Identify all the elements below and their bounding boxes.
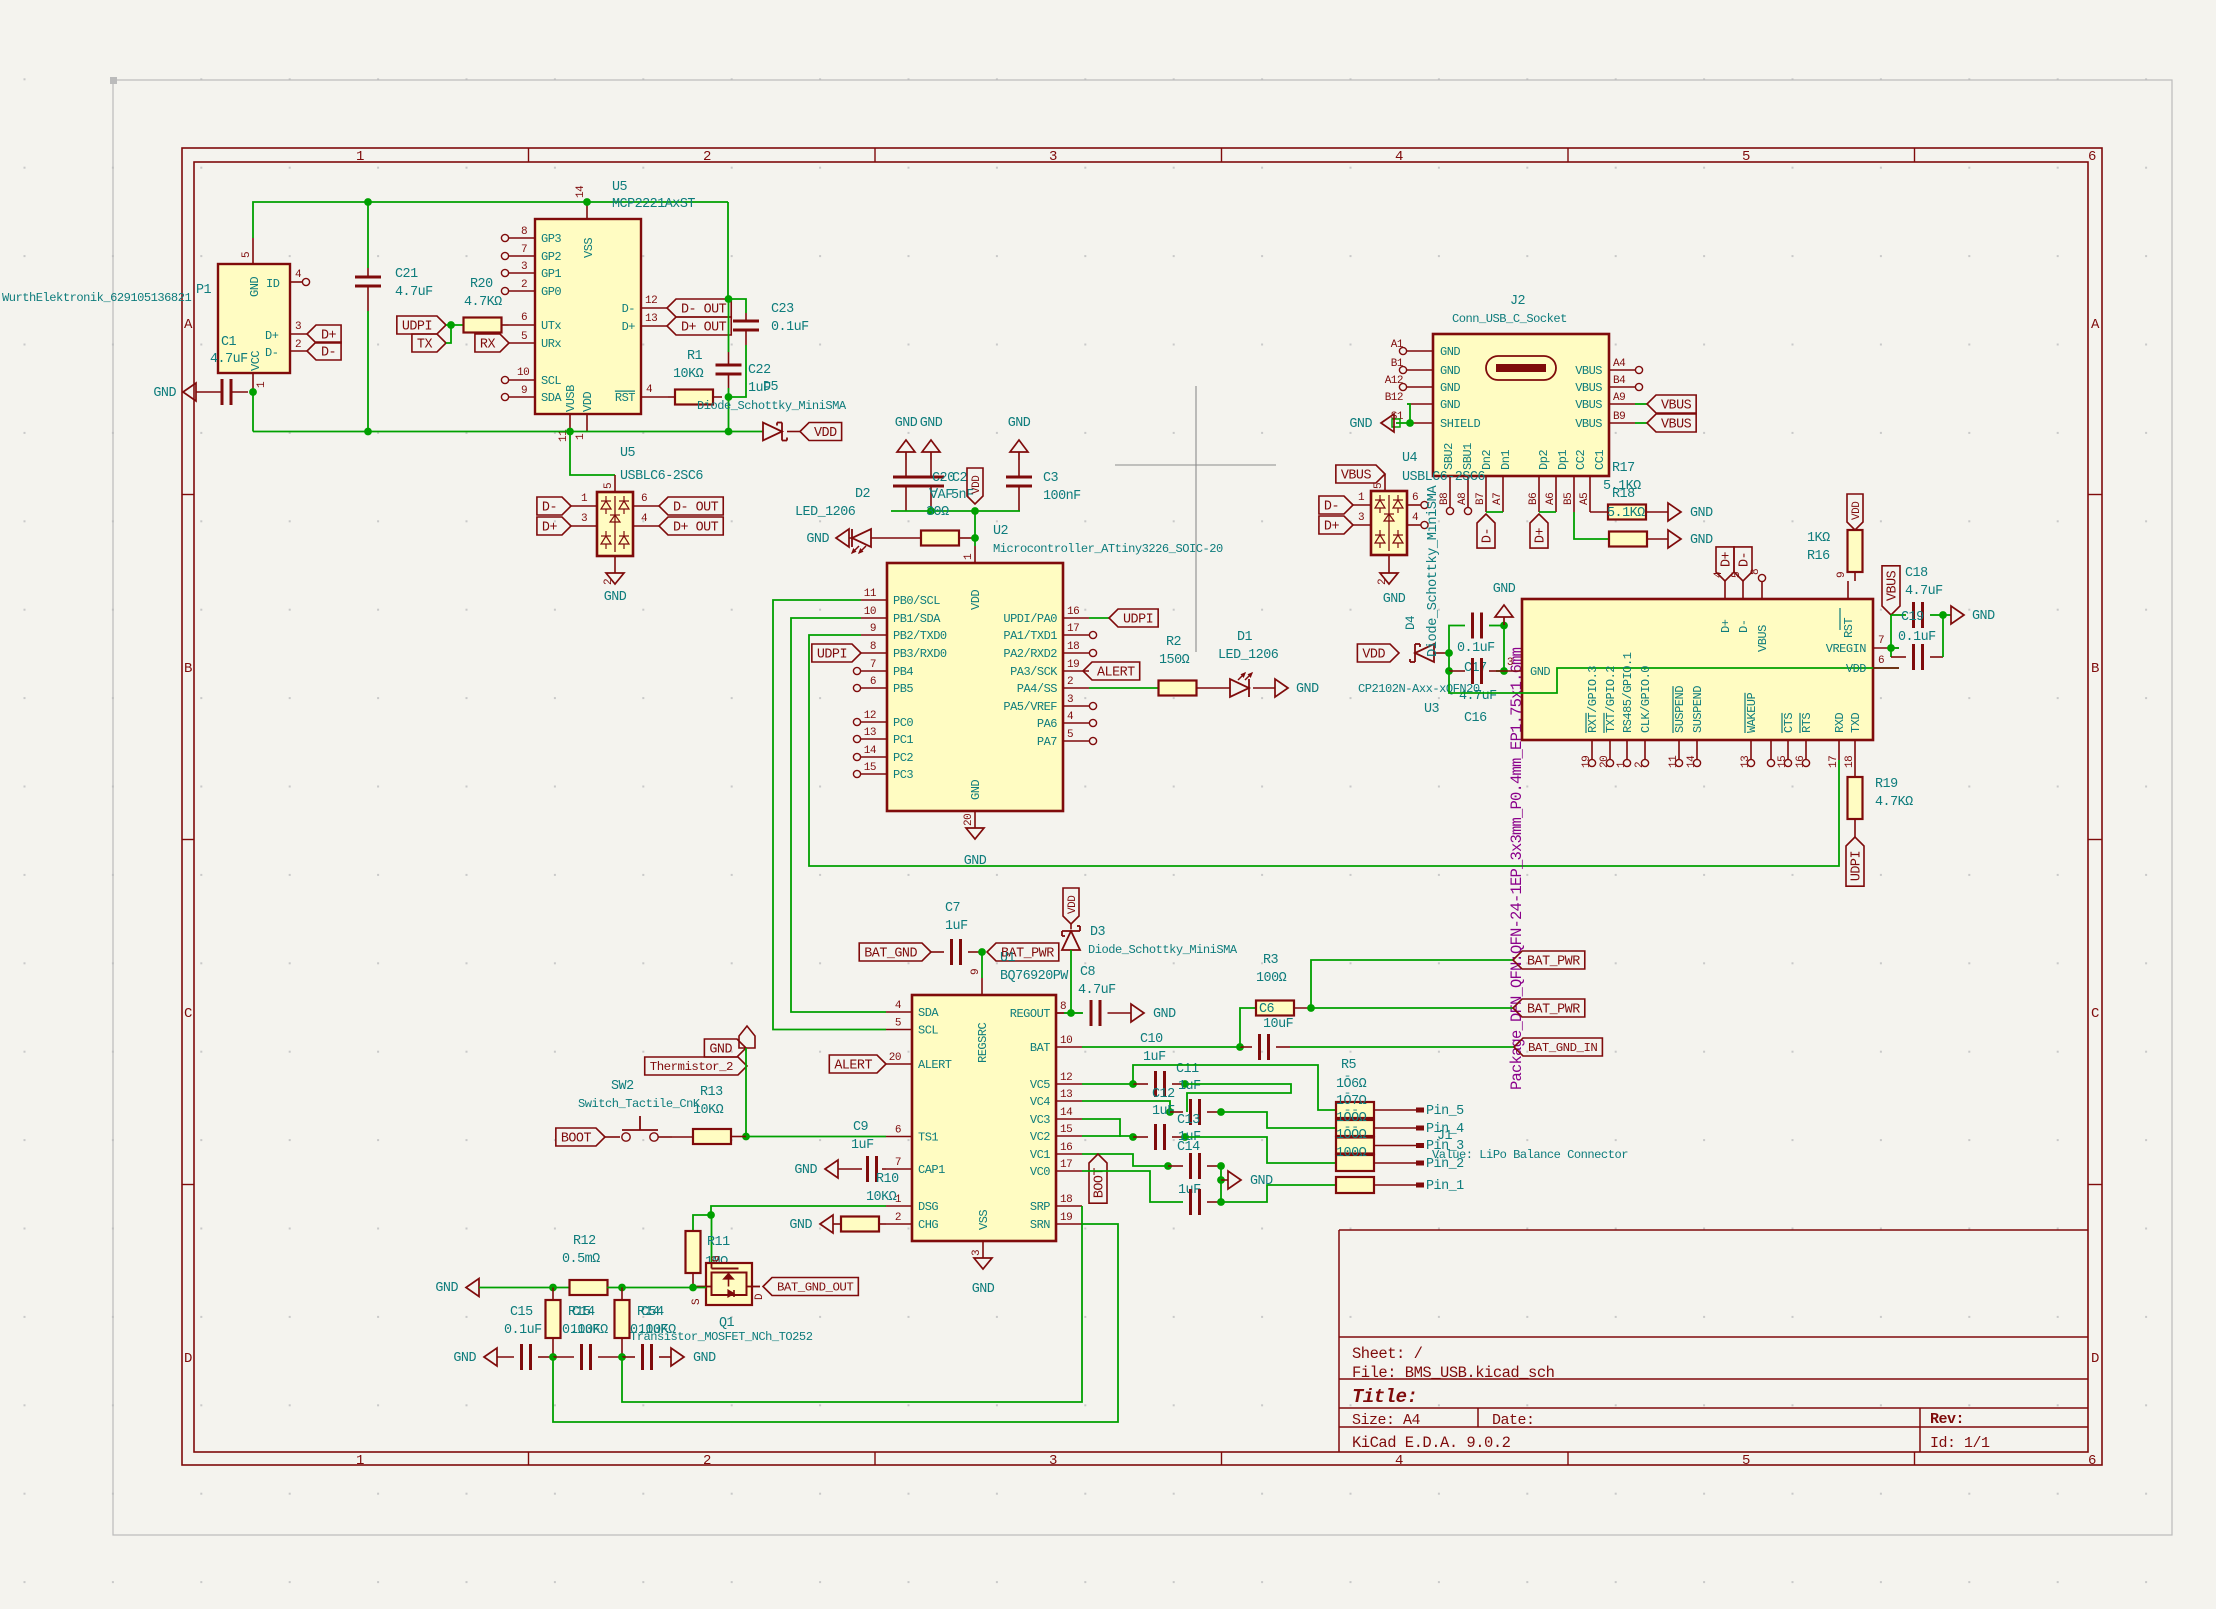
global label D+ at U4 — [1319, 516, 1353, 535]
svg-text:1: 1 — [356, 1453, 364, 1469]
svg-text:6: 6 — [2088, 1453, 2096, 1469]
diode D5 Schottky — [763, 423, 800, 441]
value 30ohm overlap — [926, 505, 949, 520]
svg-text:CC2: CC2 — [1574, 450, 1588, 470]
junction R12 right — [618, 1284, 626, 1292]
U3 right pins VREGIN VDD — [1826, 635, 1899, 676]
global label ALERT at U1 — [829, 1055, 886, 1074]
svg-text:PA5/VREF: PA5/VREF — [1003, 700, 1057, 714]
svg-text:VBUS: VBUS — [1575, 364, 1602, 378]
J2 right pins VBUS — [1575, 358, 1642, 431]
svg-text:10: 10 — [1060, 1035, 1072, 1047]
U4 pin 5 — [1373, 474, 1385, 491]
C23 labels — [771, 302, 809, 335]
USBLC6 pin 1 — [571, 493, 597, 506]
capacitor C21 — [355, 202, 381, 432]
svg-text:5: 5 — [1373, 483, 1385, 489]
junction C21 top — [364, 198, 372, 206]
svg-text:1uF: 1uF — [1152, 1104, 1175, 1119]
junction rail at U5 VUSB — [566, 428, 574, 436]
svg-text:3: 3 — [1067, 694, 1073, 706]
svg-text:4: 4 — [646, 384, 653, 396]
svg-text:C16: C16 — [1464, 711, 1487, 726]
junction VDD U2 — [927, 507, 979, 515]
svg-text:DSG: DSG — [918, 1200, 938, 1214]
U5 pin 13 D+ — [622, 313, 667, 334]
svg-text:D5: D5 — [763, 380, 779, 395]
svg-text:PB1/SDA: PB1/SDA — [893, 612, 941, 626]
svg-text:GND: GND — [435, 1281, 458, 1296]
svg-text:PB4: PB4 — [893, 665, 913, 679]
capacitor C8 — [1071, 1000, 1131, 1026]
svg-text:A8: A8 — [1457, 493, 1469, 505]
capacitor C18 — [1891, 602, 1943, 628]
global label VBUS A9 — [1647, 395, 1696, 414]
svg-text:D-: D- — [321, 346, 336, 361]
C8 labels — [1078, 965, 1116, 998]
global label D+ vertical — [1530, 514, 1549, 548]
svg-text:PA1/TXD1: PA1/TXD1 — [1003, 629, 1057, 643]
svg-text:GND: GND — [1440, 398, 1460, 412]
USBLC6 pin 3 — [571, 513, 597, 526]
svg-text:13: 13 — [1740, 756, 1752, 768]
junction C16 right GND pin — [1500, 626, 1508, 675]
svg-text:GP2: GP2 — [541, 250, 561, 264]
capacitor right row — [622, 1344, 671, 1370]
svg-text:VUSB: VUSB — [564, 385, 578, 412]
svg-text:B12: B12 — [1385, 392, 1403, 404]
svg-text:D+: D+ — [1324, 520, 1340, 535]
global label D- above U3 — [1734, 547, 1753, 581]
wire VC4 — [1082, 1101, 1174, 1116]
svg-text:CAP1: CAP1 — [918, 1163, 945, 1177]
svg-text:1uF: 1uF — [1178, 1079, 1201, 1094]
U1 left pins — [886, 1000, 952, 1232]
ground flag at J2 shield — [1349, 414, 1407, 432]
C13 labels — [1177, 1113, 1201, 1145]
capacitor C22 — [716, 299, 742, 397]
svg-text:3: 3 — [1507, 657, 1513, 669]
svg-text:D-: D- — [622, 302, 635, 316]
svg-text:PA7: PA7 — [1037, 735, 1057, 749]
svg-text:GP0: GP0 — [541, 285, 561, 299]
power flag GND C2 — [922, 440, 940, 460]
svg-text:GND: GND — [153, 386, 176, 401]
svg-text:A5: A5 — [1579, 493, 1591, 505]
svg-text:D+: D+ — [265, 329, 279, 343]
junction D2 resistor to VDD stub — [971, 534, 979, 542]
U2 pin 1 VDD — [963, 546, 983, 610]
svg-text:6: 6 — [1878, 655, 1884, 667]
svg-text:D- OUT: D- OUT — [681, 303, 727, 318]
svg-text:UDPI: UDPI — [817, 648, 847, 663]
svg-text:18: 18 — [1067, 641, 1079, 653]
svg-text:1: 1 — [575, 433, 587, 440]
svg-text:RST: RST — [1842, 618, 1856, 638]
svg-text:8: 8 — [870, 641, 876, 653]
svg-text:2: 2 — [1067, 676, 1073, 688]
svg-text:VC0: VC0 — [1030, 1165, 1050, 1179]
svg-text:SDA: SDA — [541, 391, 562, 405]
U1 right pins — [1010, 1001, 1082, 1232]
svg-text:5: 5 — [521, 331, 527, 343]
svg-text:B1: B1 — [1391, 358, 1404, 370]
svg-text:GND: GND — [1440, 345, 1460, 359]
P1 pin 3 D+ — [290, 321, 307, 334]
frame row letters — [184, 317, 2100, 1367]
D4 labels — [1404, 485, 1441, 657]
R11 labels — [705, 1235, 730, 1270]
svg-text:GND: GND — [895, 416, 918, 431]
svg-text:C1: C1 — [221, 335, 237, 350]
wire GND pin3 across to VDD pin6 — [1449, 668, 1899, 693]
U5 pin 10 SCL — [501, 367, 561, 388]
global label D- at USBLC6 — [537, 497, 571, 516]
svg-text:Size: A4: Size: A4 — [1352, 1412, 1421, 1429]
title block — [1339, 1230, 2088, 1452]
capacitor C7 — [931, 939, 982, 965]
svg-text:BAT_GND: BAT_GND — [864, 947, 917, 962]
U5 pin 6 UTx — [509, 312, 561, 333]
junction C18 right — [1939, 611, 1947, 619]
wire VC3 — [1082, 1119, 1120, 1137]
svg-text:Pin_2: Pin_2 — [1426, 1157, 1464, 1172]
svg-text:GND: GND — [969, 780, 983, 800]
U5 pins GP3 GP2 GP1 GP0 — [501, 226, 561, 299]
junction R20 left — [447, 321, 455, 329]
svg-text:4: 4 — [641, 513, 648, 525]
global label VBUS B9 — [1635, 414, 1696, 433]
svg-text:1Ō7Ω: 1Ō7Ω — [1336, 1093, 1367, 1109]
R17 labels — [1603, 461, 1641, 494]
svg-text:Q1: Q1 — [719, 1316, 735, 1331]
series resistor for D2 — [921, 531, 975, 546]
svg-text:B5: B5 — [1563, 493, 1575, 505]
svg-text:RTS: RTS — [1800, 713, 1814, 733]
capacitor C23 — [729, 299, 760, 397]
svg-text:4: 4 — [895, 1000, 902, 1012]
resistor R13 — [672, 1129, 746, 1144]
svg-text:4: 4 — [1395, 149, 1403, 165]
resistor R20 — [446, 318, 509, 333]
svg-text:D2: D2 — [855, 487, 871, 502]
R10 labels — [866, 1172, 899, 1205]
IC U2 ATtiny3226 body — [887, 563, 1063, 811]
IC U5 MCP2221AxST body — [535, 219, 641, 414]
svg-text:C23: C23 — [771, 302, 794, 317]
USBLC6 labels — [620, 446, 703, 484]
svg-text:4.7uF: 4.7uF — [1459, 689, 1497, 704]
wire VC5 — [1082, 1080, 1137, 1088]
transistor Q1 MOSFET — [697, 1263, 761, 1305]
svg-text:12: 12 — [1060, 1072, 1072, 1084]
wire B12 to S1 — [1406, 404, 1414, 427]
U3 pin 9 RST — [1836, 572, 1848, 599]
connector J1 pin labels — [1426, 1104, 1628, 1194]
wire GND rail through R12 — [479, 1287, 570, 1289]
svg-text:VDD: VDD — [1846, 662, 1866, 676]
wire PB2 to CP2102 RXD — [809, 635, 1839, 866]
svg-text:SBU2: SBU2 — [1442, 443, 1456, 470]
svg-text:D-: D- — [1324, 500, 1339, 515]
junction D4 cathode — [1445, 649, 1453, 657]
svg-text:BAT_GND_IN: BAT_GND_IN — [1528, 1041, 1597, 1055]
svg-text:RXT/GPIO.3: RXT/GPIO.3 — [1586, 666, 1600, 733]
svg-text:100nF: 100nF — [1043, 489, 1081, 504]
svg-text:13: 13 — [645, 313, 657, 325]
svg-text:C17: C17 — [1464, 661, 1487, 676]
J2 USB logo — [1486, 356, 1556, 380]
U5 pin 9 SDA — [501, 385, 562, 405]
svg-text:6: 6 — [2088, 149, 2096, 165]
IC U5 USBLC6-2SC6 body — [597, 492, 633, 556]
J2 bottom pin stubs — [1439, 476, 1591, 515]
capacitor C17 — [1449, 613, 1504, 654]
junction C23 top — [725, 295, 733, 303]
IC U1 BQ76920PW body — [912, 995, 1056, 1241]
svg-text:4: 4 — [1395, 1453, 1403, 1469]
U5 pin 4 RST — [615, 384, 668, 405]
ground flag at CAP1 — [794, 1160, 838, 1178]
resistor R18 — [1609, 532, 1668, 547]
C12 labels — [1152, 1087, 1175, 1119]
svg-text:PC1: PC1 — [893, 733, 913, 747]
svg-text:C: C — [184, 1006, 192, 1022]
wire GND link verticals — [1217, 1166, 1225, 1202]
svg-text:D+: D+ — [1719, 619, 1733, 633]
svg-text:GND: GND — [794, 1163, 817, 1178]
svg-text:5: 5 — [241, 252, 253, 258]
capacitor C11 — [1133, 1071, 1189, 1097]
svg-text:7: 7 — [870, 659, 876, 671]
svg-text:150Ω: 150Ω — [1159, 653, 1190, 668]
svg-text:R10: R10 — [876, 1172, 899, 1187]
USBLC6 pin 4 — [633, 513, 659, 526]
svg-text:Diode_Schottky_MiniSMA: Diode_Schottky_MiniSMA — [1088, 943, 1238, 957]
svg-text:UTx: UTx — [541, 319, 561, 333]
svg-text:BAT_GND_OUT: BAT_GND_OUT — [777, 1281, 853, 1295]
resistor R17 — [1608, 505, 1668, 520]
svg-text:GND: GND — [1250, 1174, 1273, 1189]
svg-text:D1: D1 — [1237, 630, 1253, 645]
svg-text:RS485/GPIO.1: RS485/GPIO.1 — [1621, 652, 1635, 733]
svg-text:20: 20 — [963, 814, 975, 826]
resistor R15 vertical — [546, 1288, 561, 1358]
svg-text:U1: U1 — [1000, 951, 1016, 966]
svg-text:GND: GND — [248, 277, 262, 297]
svg-text:BAT_PWR: BAT_PWR — [1527, 1003, 1580, 1018]
global label D+ OUT — [667, 317, 731, 336]
svg-text:R19: R19 — [1875, 777, 1898, 792]
wire junction up to BAT_PWR top — [1311, 960, 1513, 1008]
svg-text:D- OUT: D- OUT — [673, 501, 719, 516]
U2 labels — [993, 524, 1223, 556]
svg-text:12: 12 — [645, 295, 657, 307]
svg-text:BQ76920PW: BQ76920PW — [1000, 969, 1069, 984]
U5 pin 5 URx — [509, 331, 561, 351]
svg-text:4.7uF: 4.7uF — [210, 352, 248, 367]
resistor R19 vertical — [1848, 760, 1863, 837]
svg-text:B7: B7 — [1475, 493, 1487, 505]
svg-text:USBLC6-2SC6: USBLC6-2SC6 — [1402, 470, 1485, 485]
connector P1 WurthElektronik — [218, 264, 290, 373]
svg-text:4.7uF: 4.7uF — [1905, 584, 1943, 599]
svg-text:U2: U2 — [993, 524, 1009, 539]
wire VC5 to R5 — [1133, 1065, 1336, 1110]
svg-text:GND: GND — [789, 1218, 812, 1233]
svg-text:0.1uF: 0.1uF — [1898, 630, 1936, 645]
svg-text:UDPI: UDPI — [1850, 851, 1865, 881]
sheet border frame — [182, 148, 2102, 1465]
svg-text:Pin_5: Pin_5 — [1426, 1104, 1464, 1119]
wire BAT node up to R3 — [1240, 1008, 1256, 1047]
svg-text:BOOT: BOOT — [561, 1132, 592, 1147]
svg-text:VBUS: VBUS — [1575, 417, 1602, 431]
svg-text:C: C — [2091, 1006, 2099, 1022]
svg-text:C14: C14 — [1177, 1140, 1200, 1155]
svg-text:100KΩ: 100KΩ — [638, 1323, 676, 1338]
svg-text:SDA: SDA — [918, 1006, 939, 1020]
svg-text:100Ω: 100Ω — [1336, 1146, 1367, 1161]
svg-text:1uF: 1uF — [851, 1138, 874, 1153]
global label D- OUT — [667, 299, 731, 318]
svg-text:1KΩ: 1KΩ — [1807, 531, 1830, 546]
svg-text:PA3/SCK: PA3/SCK — [1010, 665, 1058, 679]
global label VDD at D4 — [1357, 644, 1399, 663]
svg-text:R20: R20 — [470, 277, 493, 292]
wire B7 to A7 — [1486, 511, 1503, 513]
GNDGND label text — [895, 416, 943, 431]
C20 C2 C3 value labels overlapping — [929, 471, 1081, 504]
global label D+ — [307, 325, 341, 344]
capacitor mid row — [553, 1344, 622, 1370]
svg-text:10KΩ: 10KΩ — [673, 367, 704, 382]
svg-text:C18: C18 — [1905, 566, 1928, 581]
U4 pin 1 — [1353, 492, 1371, 505]
ground flag left rail — [435, 1279, 479, 1297]
USBLC6 internal diodes — [601, 496, 629, 552]
C10 labels — [1140, 1032, 1166, 1065]
svg-text:1: 1 — [356, 149, 364, 165]
svg-text:BAT_PWR: BAT_PWR — [1527, 955, 1580, 970]
svg-text:14: 14 — [1060, 1107, 1073, 1119]
svg-text:2: 2 — [703, 149, 711, 165]
svg-text:5: 5 — [1067, 729, 1073, 741]
global label ALERT at PA3 — [1083, 662, 1140, 681]
svg-text:20: 20 — [1599, 756, 1611, 768]
U3 footprint text vertical — [1508, 647, 1526, 1090]
resistor R10 at CHG — [833, 1217, 886, 1232]
svg-text:GND: GND — [1690, 533, 1713, 548]
svg-text:Date:: Date: — [1492, 1412, 1535, 1429]
svg-text:UDPI: UDPI — [1123, 613, 1153, 628]
svg-text:C3: C3 — [1043, 471, 1059, 486]
svg-text:100Ω: 100Ω — [1256, 971, 1287, 986]
svg-text:R13: R13 — [700, 1085, 723, 1100]
diode D4 Schottky — [1410, 644, 1449, 662]
C19 labels — [1898, 610, 1936, 645]
global label D- at U4 — [1319, 496, 1353, 515]
wire PA4 to R2 — [1089, 687, 1159, 689]
svg-text:6: 6 — [895, 1125, 901, 1137]
global label BOOT vertical — [1089, 1154, 1108, 1203]
global label BAT_GND_OUT — [763, 1278, 858, 1296]
global label UDPI — [397, 316, 446, 335]
svg-text:G: G — [711, 1256, 723, 1262]
ground flag caps row left — [453, 1348, 497, 1366]
svg-text:J2: J2 — [1510, 294, 1526, 309]
power symbol VDD above R16 — [1847, 494, 1863, 530]
IC U3 CP2102N body — [1522, 599, 1873, 740]
svg-text:R18: R18 — [1612, 487, 1635, 502]
svg-text:A1: A1 — [1391, 339, 1404, 351]
svg-text:VC3: VC3 — [1030, 1113, 1050, 1127]
capacitor C13 — [1133, 1124, 1189, 1150]
resistor network R5-R9 — [1336, 1102, 1424, 1193]
svg-text:15: 15 — [1060, 1124, 1072, 1136]
U4 pin 3 — [1353, 512, 1371, 525]
svg-text:8: 8 — [1060, 1001, 1066, 1013]
global label TX — [412, 334, 446, 353]
svg-text:BOOT: BOOT — [1093, 1168, 1108, 1199]
svg-text:4.7KΩ: 4.7KΩ — [1875, 795, 1913, 810]
svg-text:VC5: VC5 — [1030, 1078, 1050, 1092]
svg-text:100KΩ: 100KΩ — [570, 1323, 608, 1338]
global label UDPI vertical below R19 — [1846, 837, 1865, 886]
resistor R11 vertical — [686, 1231, 701, 1288]
global label UDPI at PA0 — [1089, 609, 1158, 628]
svg-text:Conn_USB_C_Socket: Conn_USB_C_Socket — [1452, 312, 1567, 326]
svg-text:VDD: VDD — [1851, 501, 1863, 520]
svg-text:13: 13 — [864, 727, 876, 739]
svg-text:PA4/SS: PA4/SS — [1017, 682, 1058, 696]
svg-text:PA6: PA6 — [1037, 717, 1057, 731]
svg-text:19: 19 — [1060, 1212, 1072, 1224]
svg-text:2: 2 — [1634, 762, 1646, 768]
svg-text:TXD: TXD — [1849, 713, 1863, 733]
svg-text:VDD: VDD — [969, 590, 983, 610]
svg-text:14: 14 — [575, 185, 587, 198]
svg-text:6: 6 — [641, 493, 647, 505]
svg-text:Dp1: Dp1 — [1556, 450, 1570, 470]
capacitor C3 — [1006, 460, 1032, 511]
junction mid cap right — [618, 1353, 626, 1361]
svg-text:GND: GND — [972, 1282, 995, 1297]
C7 labels — [945, 901, 968, 934]
ground flag at C8 — [1131, 1004, 1176, 1022]
wire DSG junction to Q1 gate — [711, 1215, 713, 1263]
svg-text:19: 19 — [1581, 756, 1593, 768]
ground flag caps row right — [671, 1348, 716, 1366]
svg-text:D: D — [184, 1351, 192, 1367]
junction C21 bottom — [364, 428, 372, 436]
global label GND above thermistor — [704, 1039, 746, 1058]
svg-text:D+: D+ — [622, 320, 636, 334]
svg-text:10uF: 10uF — [1263, 1017, 1294, 1032]
R13 labels — [693, 1085, 724, 1118]
svg-text:1: 1 — [581, 493, 588, 505]
svg-text:PB0/SCL: PB0/SCL — [893, 594, 940, 608]
svg-text:A4: A4 — [1613, 358, 1626, 370]
svg-text:C7: C7 — [945, 901, 960, 916]
global label VBUS vertical at U3 — [1882, 566, 1901, 615]
junction R1 right — [725, 393, 733, 401]
wire PB0 to BQ SCL — [773, 600, 886, 1030]
svg-text:GND: GND — [1296, 682, 1319, 697]
svg-text:C13: C13 — [1177, 1113, 1200, 1128]
ground flag at R18 — [1668, 530, 1713, 548]
svg-text:C6: C6 — [1259, 1002, 1275, 1017]
